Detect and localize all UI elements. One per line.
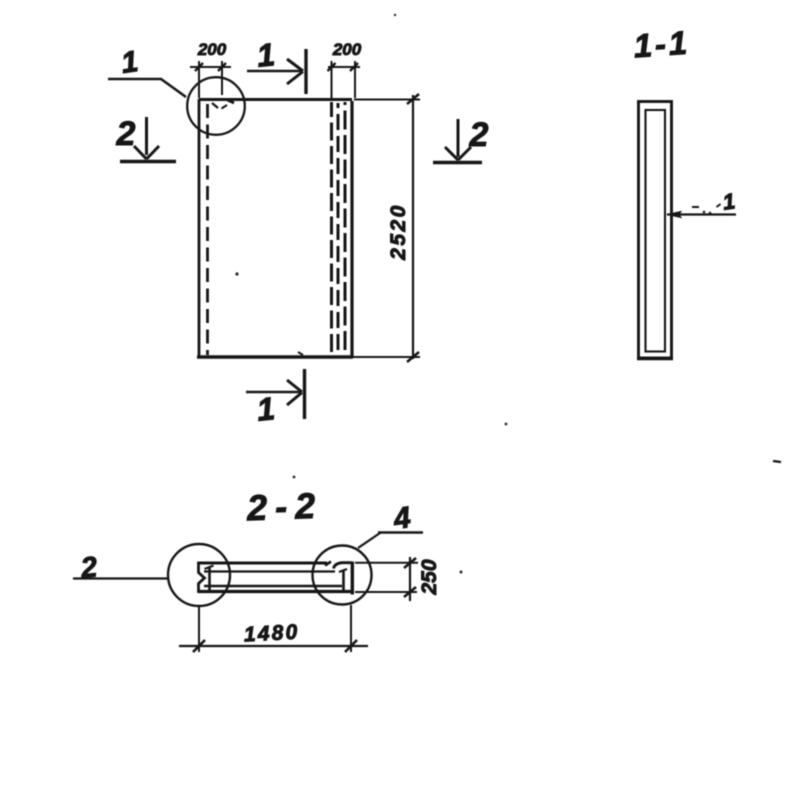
leader for detail 1: [108, 79, 186, 97]
panel outline (front view): [197, 99, 353, 357]
svg-text:2520: 2520: [387, 203, 410, 261]
stray dash right: [773, 461, 781, 462]
right dashed line c: [344, 102, 347, 356]
detail circle 1: [187, 77, 245, 135]
left inner tick: [208, 567, 211, 591]
detail circle right (2-2): [313, 546, 372, 605]
svg-text:1: 1: [255, 390, 276, 428]
svg-text:200: 200: [197, 40, 227, 59]
right dashed line a: [330, 102, 333, 355]
2-2 bar: inner top line: [204, 570, 335, 572]
right element rounded top: [334, 563, 353, 569]
svg-text:1-1: 1-1: [632, 24, 691, 65]
dimension 200 right: text: [328, 40, 362, 98]
2-2 bar: left edge with notch: [199, 562, 205, 593]
dimension 1480: [179, 605, 368, 652]
svg-text:1: 1: [119, 45, 140, 80]
stray speck 4: [460, 571, 463, 574]
section marker 2 right: [433, 116, 489, 163]
stray speck 3: [505, 423, 508, 426]
detail mark dashes inside circle: [212, 100, 234, 109]
label 4 with leader (2-2): [358, 501, 423, 548]
section marker 2 left: [116, 115, 176, 162]
top line end hook: [325, 562, 331, 566]
svg-text:1: 1: [255, 36, 276, 74]
left dashed line: [206, 104, 209, 355]
svg-text:200: 200: [332, 40, 362, 59]
1-1 section outer rect: [639, 102, 672, 359]
leader arrow on 1-1: [667, 188, 737, 217]
stray mark under panel: [298, 352, 303, 355]
dimension 200 left: text: [190, 40, 231, 98]
dimension 250: [355, 557, 441, 601]
svg-text:1480: 1480: [243, 621, 300, 647]
svg-text:2: 2: [78, 551, 98, 585]
svg-text:1: 1: [721, 188, 737, 214]
1-1 bottom thick: [637, 357, 673, 360]
section marker 1 top: [247, 36, 306, 94]
stray speck 2: [235, 272, 238, 275]
detail circle left (2-2): [168, 544, 230, 606]
right element right edge: [351, 562, 354, 595]
section marker 1 bottom: [246, 369, 305, 428]
stray speck 5: [293, 476, 296, 479]
2-2 bar: inner bottom line: [204, 585, 342, 587]
2-2 bar: outer bottom line: [198, 590, 353, 593]
svg-text:250: 250: [418, 559, 441, 595]
right inner tick: [342, 570, 345, 591]
svg-text:4: 4: [391, 501, 413, 536]
2-2 bar: outer top line: [198, 562, 328, 565]
right dashed line b: [337, 103, 340, 356]
label 2 with leader (2-2): [73, 551, 169, 585]
svg-text:2-2: 2-2: [245, 485, 323, 529]
1-1 section inner rect: [646, 110, 666, 352]
svg-text:2: 2: [116, 115, 136, 153]
stray speck 1: [394, 14, 396, 16]
dimension 2520: [353, 94, 420, 362]
